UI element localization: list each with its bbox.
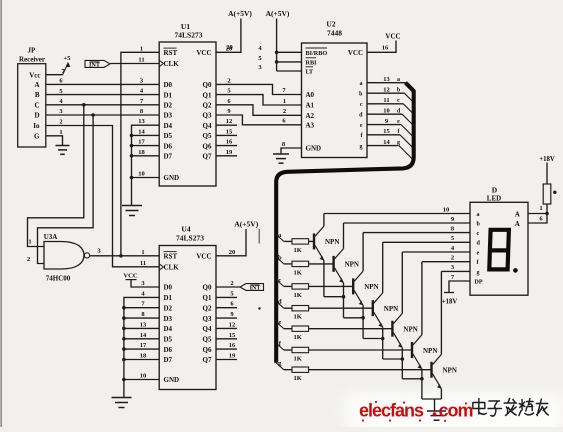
- svg-text:D6: D6: [164, 346, 173, 354]
- wire U4 Q2 stub: [216, 307, 237, 309]
- wire B to D1: [46, 94, 159, 96]
- wire Q5 stub: [216, 134, 237, 136]
- svg-text:1K: 1K: [294, 269, 302, 276]
- wire U4 D7: [124, 359, 159, 361]
- svg-text:12: 12: [226, 118, 233, 125]
- svg-text:g: g: [477, 270, 480, 276]
- svg-text:D5: D5: [164, 132, 173, 140]
- stray vertical mark: [258, 229, 260, 244]
- wire U4 Q3 stub: [216, 317, 237, 319]
- svg-text:13: 13: [138, 118, 145, 125]
- gate U3A 74HC00: [44, 242, 84, 270]
- wire U2 output f: [367, 134, 400, 136]
- wire collector Qf up: [421, 262, 423, 335]
- wire GND U1: [132, 177, 160, 179]
- svg-text:14: 14: [138, 128, 145, 135]
- svg-text:NPN: NPN: [423, 347, 437, 355]
- transistor Qd NPN: [372, 300, 374, 316]
- wire U4 GND: [124, 379, 159, 381]
- svg-text:1K: 1K: [294, 334, 302, 341]
- node U3A out / RST: [119, 254, 123, 258]
- svg-text:20: 20: [229, 249, 236, 256]
- svg-text:C: C: [34, 101, 39, 109]
- wire R to base Qc: [309, 285, 354, 287]
- wire U4 D2: [124, 307, 159, 309]
- wire G pin: [46, 136, 63, 146]
- wire U4 Q6 stub: [216, 348, 237, 350]
- resistor Re 1K: [292, 326, 309, 331]
- svg-text:b: b: [278, 254, 282, 261]
- wire emitter chain: [324, 296, 344, 298]
- ground emitters: [434, 399, 436, 411]
- svg-text:VCC: VCC: [196, 49, 211, 57]
- wire segment row b: [276, 257, 284, 264]
- svg-text:JP: JP: [28, 47, 37, 55]
- svg-text:11: 11: [383, 97, 389, 104]
- svg-text:D1: D1: [164, 91, 173, 99]
- svg-text:Q7: Q7: [203, 356, 212, 364]
- svg-text:NPN: NPN: [325, 238, 339, 246]
- wire collector Qb up: [343, 223, 345, 249]
- wire R to base Qa: [309, 240, 314, 242]
- wire C to D2: [46, 104, 159, 106]
- svg-text:7448: 7448: [327, 29, 342, 38]
- wire BI/RBO: [277, 51, 302, 53]
- wire segment row e: [276, 322, 284, 329]
- node C branch: [82, 103, 86, 107]
- svg-text:c: c: [397, 98, 400, 104]
- wire U2 VCC: [367, 41, 396, 53]
- svg-text:c: c: [477, 231, 480, 237]
- svg-text:Q1: Q1: [203, 91, 212, 99]
- svg-text:1: 1: [140, 45, 143, 52]
- wire collector Qd up: [382, 242, 384, 293]
- svg-text:D7: D7: [164, 356, 173, 364]
- svg-text:19: 19: [229, 353, 236, 360]
- svg-text:g: g: [397, 140, 400, 146]
- wire LED row e: [402, 251, 470, 253]
- wire emitter chain: [402, 378, 422, 380]
- svg-text:a: a: [360, 81, 363, 87]
- node GND U1: [130, 176, 134, 180]
- svg-text:1: 1: [28, 239, 31, 246]
- svg-text:D3: D3: [164, 112, 173, 120]
- svg-text:2: 2: [59, 119, 62, 126]
- wire LED row f: [422, 261, 470, 263]
- svg-text:a: a: [397, 77, 400, 83]
- svg-text:Q2: Q2: [203, 304, 212, 312]
- display D LED: [470, 202, 528, 295]
- svg-text:e: e: [397, 119, 400, 125]
- svg-text:A(+5V): A(+5V): [234, 220, 258, 229]
- wire R to base Qf: [309, 349, 412, 351]
- svg-text:1K: 1K: [294, 375, 302, 382]
- svg-text:A3: A3: [306, 122, 315, 130]
- IC U1 74LS273: [159, 42, 216, 186]
- svg-text:15: 15: [226, 128, 233, 135]
- svg-text:1: 1: [283, 98, 286, 105]
- wire U4 D5: [124, 338, 159, 340]
- svg-text:Q3: Q3: [203, 315, 212, 323]
- svg-text:D7: D7: [164, 153, 173, 161]
- node pin4: [275, 51, 279, 55]
- net INT flag bottom: [216, 286, 240, 288]
- svg-text:74HC00: 74HC00: [46, 275, 71, 283]
- svg-text:Q4: Q4: [203, 325, 212, 333]
- wire LED row g: [441, 270, 470, 272]
- svg-text:20: 20: [226, 44, 233, 51]
- wire LED row c: [363, 232, 470, 234]
- wire U2 output a: [367, 82, 406, 84]
- svg-text:com: com: [439, 401, 473, 421]
- svg-text:Receiver: Receiver: [19, 55, 45, 63]
- wire U4 Q1 stub: [216, 296, 237, 298]
- svg-text:18: 18: [140, 353, 147, 360]
- svg-text:13: 13: [140, 321, 147, 328]
- wire LED row a: [324, 213, 470, 215]
- node emitter join: [420, 377, 424, 381]
- ground JP: [56, 145, 70, 147]
- connector JP Receiver: [18, 64, 46, 147]
- decimal point: [513, 268, 518, 273]
- wire U2 output e: [367, 124, 401, 126]
- power +18V DP: [444, 292, 454, 294]
- resistor Rc 1K: [292, 284, 309, 289]
- svg-text:D0: D0: [164, 284, 173, 292]
- wire Q1 to A1: [216, 95, 302, 105]
- wire U4 Q5 stub: [216, 338, 237, 340]
- svg-text:RST: RST: [164, 253, 178, 261]
- wire D to D3: [46, 114, 159, 116]
- wire emitter Qf down: [421, 369, 423, 399]
- svg-text:D5: D5: [164, 336, 173, 344]
- svg-text:Q0: Q0: [203, 284, 212, 292]
- svg-text:NPN: NPN: [345, 261, 359, 269]
- svg-text:74LS273: 74LS273: [176, 234, 204, 243]
- svg-text:U4: U4: [181, 225, 190, 234]
- svg-text:1: 1: [539, 205, 542, 212]
- net INT flag top: [85, 60, 110, 67]
- svg-text:e: e: [278, 319, 281, 326]
- svg-text:INT: INT: [89, 62, 101, 69]
- transistor Qg NPN: [430, 362, 432, 378]
- wire U4 D6: [124, 348, 159, 350]
- wire U4 D bus: [124, 297, 159, 379]
- watermark chinese text: [473, 399, 548, 417]
- svg-text:GND: GND: [306, 145, 322, 153]
- wire segment row g: [276, 363, 284, 370]
- wire LED DP: [449, 281, 470, 293]
- wire emitter chain: [363, 338, 383, 340]
- svg-text:16: 16: [229, 342, 236, 349]
- svg-text:c: c: [360, 102, 363, 108]
- svg-text:15: 15: [383, 128, 390, 135]
- wire Q7 stub: [216, 155, 237, 157]
- node emitter join: [342, 295, 346, 299]
- wire D4 bus: [132, 125, 160, 177]
- svg-text:16: 16: [382, 45, 389, 52]
- svg-text:+5: +5: [64, 55, 72, 62]
- wire emitter rail: [422, 398, 442, 400]
- svg-text:15: 15: [229, 332, 236, 339]
- wire INT to U1 CLK: [110, 63, 159, 65]
- svg-text:1K: 1K: [294, 247, 302, 254]
- svg-text:D6: D6: [164, 142, 173, 150]
- wire collector Qg up: [440, 271, 442, 354]
- wire R to base Qe: [309, 328, 393, 330]
- svg-text:a: a: [477, 212, 480, 218]
- wire U2 GND: [281, 148, 302, 154]
- wire segment row d: [276, 301, 284, 308]
- svg-text:NPN: NPN: [403, 326, 417, 334]
- svg-text:14: 14: [140, 332, 147, 339]
- wire A to D0: [46, 83, 159, 85]
- wire U1 RST down to U3A output: [121, 52, 159, 256]
- svg-text:1K: 1K: [294, 356, 302, 363]
- wire U2 output b: [367, 92, 404, 94]
- node D7: [130, 154, 134, 158]
- resistor Rd 1K: [292, 306, 309, 311]
- node emitter join: [381, 337, 385, 341]
- svg-text:D2: D2: [164, 304, 173, 312]
- transistor Qe NPN: [391, 321, 393, 337]
- wire U3A out to U4 RST: [90, 255, 160, 257]
- wire Vcc pin: [46, 74, 63, 76]
- node D branch: [91, 113, 95, 117]
- wire segment row c: [276, 280, 284, 287]
- svg-text:2: 2: [283, 108, 286, 115]
- svg-text:10: 10: [443, 206, 450, 213]
- wire emitter Qb down: [343, 283, 345, 318]
- svg-text:16: 16: [226, 139, 233, 146]
- svg-text:Q5: Q5: [203, 132, 212, 140]
- wire R to base Qd: [309, 307, 373, 309]
- transistor Qf NPN: [411, 342, 413, 358]
- wire Io to U4 CLK: [46, 126, 159, 267]
- wire collector Qc up: [362, 233, 364, 272]
- wire segment row a: [276, 235, 284, 242]
- svg-text:A1: A1: [306, 102, 315, 110]
- svg-text:Q0: Q0: [203, 81, 212, 89]
- svg-text:D2: D2: [164, 102, 173, 110]
- wire Q3 to A3: [216, 115, 302, 125]
- wire RBI: [277, 61, 302, 63]
- svg-text:U2: U2: [326, 20, 335, 29]
- svg-text:1: 1: [59, 129, 62, 136]
- svg-text:A: A: [515, 220, 520, 228]
- svg-text:17: 17: [138, 139, 145, 146]
- svg-text:A: A: [34, 81, 39, 89]
- wire U4 D4: [124, 327, 159, 329]
- wire bundle segment bus: [276, 83, 414, 363]
- svg-text:A0: A0: [306, 91, 315, 99]
- ground U1: [131, 178, 133, 206]
- svg-text:NPN: NPN: [384, 305, 398, 313]
- wire U4 Q7 stub: [216, 359, 237, 361]
- wire emitter Qc down: [362, 305, 364, 338]
- wire R to base Qg: [309, 369, 432, 371]
- svg-text:INT: INT: [250, 286, 261, 292]
- svg-text:elecfans: elecfans: [359, 401, 424, 421]
- wire LED A pin1: [528, 213, 547, 215]
- transistor Qa NPN: [313, 233, 315, 249]
- svg-text:U3A: U3A: [44, 233, 58, 241]
- svg-text:NPN: NPN: [364, 283, 378, 291]
- svg-text:Q6: Q6: [203, 142, 212, 150]
- svg-text:10: 10: [383, 107, 390, 114]
- svg-text:VCC: VCC: [385, 33, 400, 41]
- wire U4 Q4 stub: [216, 327, 237, 329]
- wire LED A pin6: [528, 204, 547, 223]
- svg-text:12: 12: [383, 86, 390, 93]
- svg-text:LT: LT: [306, 69, 315, 76]
- node pin1 join: [545, 212, 549, 216]
- svg-text:2: 2: [230, 280, 233, 287]
- svg-text:2: 2: [27, 256, 30, 263]
- wire emitter Qg down: [440, 389, 442, 399]
- wire LT: [277, 70, 302, 72]
- wire D to U3A input 2: [38, 115, 94, 264]
- svg-text:+18V: +18V: [442, 299, 458, 306]
- svg-text:14: 14: [383, 139, 390, 146]
- ground U4: [123, 380, 125, 398]
- svg-text:VCC: VCC: [123, 272, 138, 279]
- node emitter join: [401, 357, 405, 361]
- node D6: [130, 144, 134, 148]
- wire Q6 stub: [216, 145, 237, 147]
- wire Q4 stub: [216, 124, 237, 126]
- svg-text:Q2: Q2: [203, 102, 212, 110]
- svg-text:LED: LED: [487, 195, 501, 203]
- svg-text:Io: Io: [33, 122, 40, 130]
- svg-text:D1: D1: [164, 294, 173, 302]
- svg-text:DP: DP: [475, 279, 483, 285]
- svg-text:Q7: Q7: [203, 153, 212, 161]
- svg-text:VCC: VCC: [196, 253, 211, 261]
- svg-text:17: 17: [140, 342, 147, 349]
- transistor Qb NPN: [332, 256, 334, 272]
- svg-text:D: D: [492, 185, 498, 194]
- svg-text:13: 13: [383, 76, 390, 83]
- svg-text:A2: A2: [306, 112, 315, 120]
- resistor Ra 1K: [292, 239, 309, 244]
- svg-text:B: B: [35, 91, 40, 99]
- wire R to base Qb: [309, 263, 334, 265]
- wire Q0 to A0: [216, 84, 302, 94]
- svg-text:12: 12: [229, 321, 236, 328]
- svg-text:11: 11: [138, 57, 144, 64]
- svg-text:GND: GND: [164, 376, 180, 384]
- svg-text:RBI: RBI: [306, 60, 318, 67]
- IC U4 74LS273: [159, 246, 216, 390]
- wire collector Qe up: [401, 252, 403, 313]
- svg-text:1K: 1K: [294, 314, 302, 321]
- svg-text:2: 2: [227, 77, 230, 84]
- wire LED row d: [383, 241, 470, 243]
- svg-text:GND: GND: [164, 174, 180, 182]
- svg-text:+18V: +18V: [539, 156, 555, 163]
- svg-text:A(+5V): A(+5V): [266, 9, 290, 18]
- wire LED row b: [344, 222, 471, 224]
- svg-text:VCC: VCC: [348, 49, 363, 57]
- wire segment row f: [276, 343, 284, 350]
- svg-text:19: 19: [226, 149, 233, 156]
- svg-text:Q6: Q6: [203, 346, 212, 354]
- wire U4 D3: [124, 317, 159, 319]
- svg-text:2: 2: [451, 255, 454, 262]
- wire U2 output g: [367, 145, 399, 147]
- wire Q2 to A2: [216, 105, 302, 116]
- svg-text:18: 18: [138, 149, 145, 156]
- svg-text:Vcc: Vcc: [29, 71, 40, 79]
- svg-text:D: D: [34, 112, 39, 120]
- svg-text:CLK: CLK: [164, 60, 180, 68]
- svg-text:D3: D3: [164, 315, 173, 323]
- svg-text:1: 1: [141, 249, 144, 256]
- svg-text:Q1: Q1: [203, 294, 212, 302]
- wire emitter Qa down: [323, 260, 325, 296]
- svg-text:Q5: Q5: [203, 336, 212, 344]
- svg-text:Q4: Q4: [203, 122, 212, 130]
- stray mark: [258, 307, 260, 309]
- node pin5: [275, 60, 279, 64]
- resistor R anode: [543, 184, 551, 204]
- svg-text:e: e: [477, 250, 480, 256]
- wire D7: [132, 155, 160, 157]
- svg-text:NPN: NPN: [443, 367, 457, 375]
- wire emitter chain: [344, 317, 364, 319]
- svg-text:D0: D0: [164, 81, 173, 89]
- seven segment digit 8: [489, 230, 509, 270]
- svg-text:D4: D4: [164, 122, 173, 130]
- wire D6: [132, 145, 160, 147]
- svg-text:10: 10: [140, 373, 147, 380]
- svg-text:A(+5V): A(+5V): [228, 9, 252, 18]
- power +5 arrow: [63, 63, 68, 75]
- svg-text:10: 10: [138, 171, 145, 178]
- svg-text:11: 11: [140, 260, 146, 267]
- svg-text:e: e: [360, 123, 363, 129]
- wire C to U3A input 1: [28, 105, 84, 247]
- ground U2: [273, 153, 289, 155]
- resistor Rb 1K: [292, 261, 309, 266]
- transistor Qc NPN: [352, 278, 354, 294]
- node emitter join: [361, 316, 365, 320]
- wire U2 output d: [367, 113, 402, 115]
- wire emitter Qd down: [382, 327, 384, 359]
- svg-text:A: A: [515, 211, 520, 219]
- svg-text:g: g: [360, 144, 363, 150]
- IC U2 7448: [302, 43, 368, 158]
- svg-text:D4: D4: [164, 325, 173, 333]
- scan edge artifact left: [0, 0, 2, 427]
- svg-text:G: G: [34, 132, 40, 140]
- svg-text:c: c: [278, 277, 281, 284]
- svg-text:1K: 1K: [294, 292, 302, 299]
- wire D5: [132, 134, 160, 136]
- wire emitter Qe down: [401, 348, 403, 379]
- resistor Rg 1K: [292, 367, 309, 372]
- svg-text:d: d: [278, 299, 282, 306]
- wire collector Qa up: [323, 214, 325, 227]
- svg-text:RST: RST: [164, 49, 178, 57]
- wire emitter chain: [383, 358, 403, 360]
- svg-text:CLK: CLK: [164, 264, 180, 272]
- svg-text:Q3: Q3: [203, 112, 212, 120]
- svg-text:74LS273: 74LS273: [175, 31, 203, 40]
- resistor Rf 1K: [292, 347, 309, 352]
- svg-text:BI/RBO: BI/RBO: [306, 50, 328, 57]
